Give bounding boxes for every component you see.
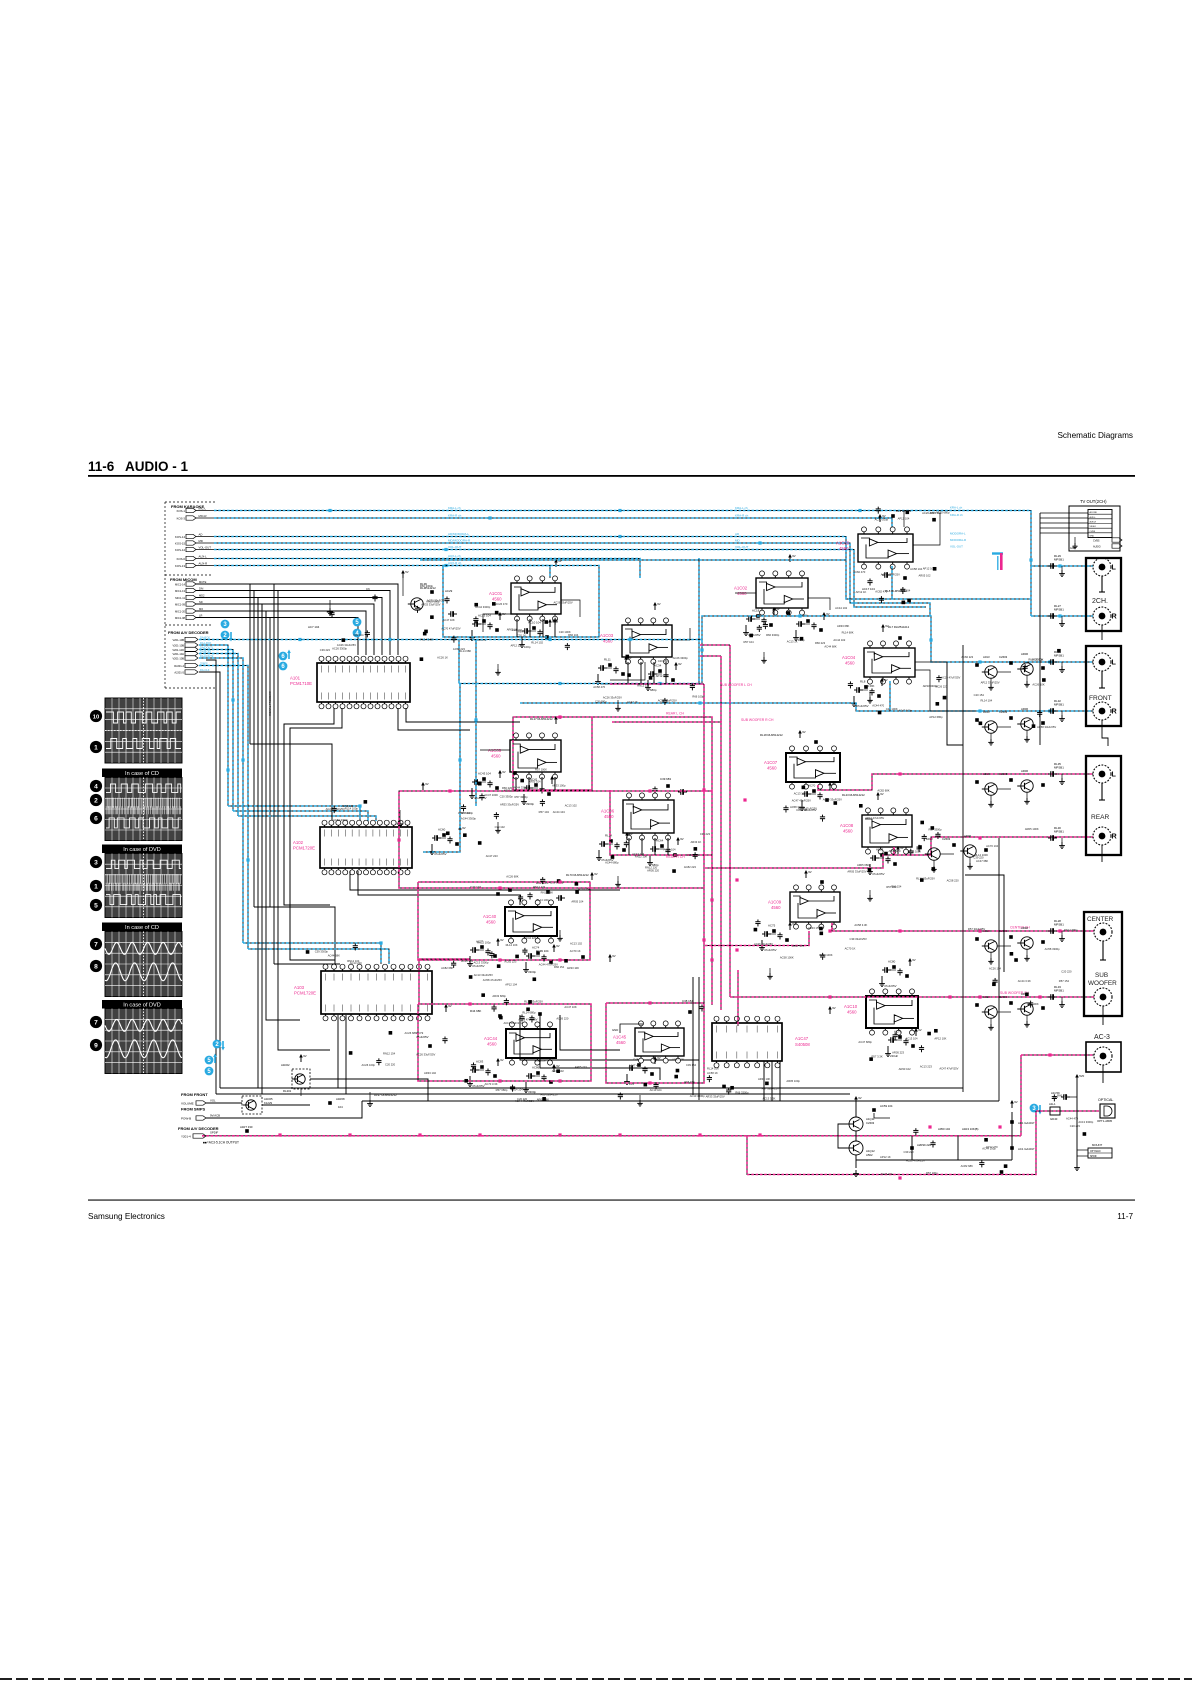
- svg-text:AC13 3300p: AC13 3300p: [1078, 1120, 1093, 1124]
- svg-text:RL14: RL14: [605, 834, 612, 838]
- svg-text:C6: C6: [366, 587, 370, 591]
- callout 8: [90, 960, 102, 972]
- svg-text:AC44 102: AC44 102: [833, 638, 845, 642]
- svg-text:A1C01: A1C01: [489, 591, 503, 596]
- callout 2: [90, 794, 102, 806]
- wire MD (cyan): [214, 543, 930, 616]
- svg-text:RN12 223: RN12 223: [637, 684, 650, 688]
- svg-text:MIC1-14: MIC1-14: [175, 582, 186, 586]
- svg-text:AC74: AC74: [532, 946, 540, 950]
- cyan drop A1C35 bottom pin to 2CH R path: [891, 566, 893, 599]
- svg-text:SUB WOOFER L CH: SUB WOOFER L CH: [720, 683, 752, 687]
- branch feed line into A102: [250, 744, 332, 821]
- svg-text:RL14 68K: RL14 68K: [459, 649, 471, 653]
- svg-text:SIGNAL PROCESS: SIGNAL PROCESS: [268, 691, 272, 716]
- svg-text:AC44 3300p: AC44 3300p: [461, 817, 476, 821]
- svg-text:A1C10: A1C10: [844, 1004, 858, 1009]
- svg-text:AC13 33uF/25V: AC13 33uF/25V: [503, 1021, 522, 1025]
- svg-text:C2603: C2603: [999, 995, 1008, 999]
- svg-text:AR33 33uF/25V: AR33 33uF/25V: [706, 1094, 725, 1098]
- svg-text:In case of CD: In case of CD: [125, 771, 159, 777]
- svg-text:R66 33uF/25V: R66 33uF/25V: [540, 1092, 558, 1096]
- magenta net: OPTICAL feed: [1036, 1110, 1099, 1112]
- wire AUX-L (cyan): [214, 559, 640, 579]
- power 9V above A1C02: [789, 557, 791, 562]
- svg-text:Samsung Electronics: Samsung Electronics: [88, 1212, 165, 1221]
- svg-text:A1R7 330: A1R7 330: [240, 1125, 253, 1129]
- svg-text:AC58 220: AC58 220: [341, 804, 353, 808]
- svg-text:AP12 47uF/25V: AP12 47uF/25V: [865, 816, 884, 820]
- svg-text:AC13 3300p: AC13 3300p: [548, 880, 563, 884]
- svg-text:KOS-3: KOS-3: [177, 516, 186, 520]
- A1C03 output pin drops to cyan line: [627, 662, 629, 684]
- svg-text:L: L: [1112, 770, 1117, 779]
- svg-text:9V: 9V: [832, 782, 836, 786]
- svg-text:AR05 223: AR05 223: [575, 1065, 587, 1069]
- svg-text:C48: C48: [633, 1058, 639, 1062]
- op-amp A1C10 4560 (bold): [866, 996, 918, 1028]
- svg-text:AC29: AC29: [445, 589, 453, 593]
- svg-text:9V: 9V: [556, 944, 560, 948]
- svg-text:AC47 10K: AC47 10K: [672, 1057, 684, 1061]
- callout 7a: [90, 938, 102, 950]
- svg-text:AUX-R: AUX-R: [199, 562, 208, 566]
- svg-text:AP12 33uF/25V: AP12 33uF/25V: [981, 680, 1000, 684]
- DAC A102 PCM1720E: [320, 827, 412, 868]
- A1C01 output pin drops to cyan box: [516, 619, 518, 637]
- svg-text:C20 104: C20 104: [353, 633, 364, 637]
- branch feed line into A103: [254, 907, 335, 964]
- svg-text:C2603: C2603: [999, 929, 1008, 933]
- jack CENTER: [1094, 923, 1112, 941]
- svg-text:KRA-R ch: KRA-R ch: [735, 513, 749, 517]
- svg-text:AJ201-5: AJ201-5: [174, 670, 184, 674]
- svg-text:A102: A102: [293, 840, 304, 845]
- svg-text:CENTER: CENTER: [1087, 916, 1114, 923]
- svg-text:C39 220: C39 220: [973, 856, 984, 860]
- 5V supply near optical: [1076, 1077, 1078, 1082]
- svg-text:R66 3300p: R66 3300p: [766, 633, 780, 637]
- svg-text:680p: 680p: [650, 688, 657, 692]
- svg-text:VOL-OUT: VOL-OUT: [735, 545, 749, 549]
- svg-text:AP12 104: AP12 104: [505, 982, 517, 986]
- spare black bus to bottom: [206, 660, 216, 1094]
- wire AD (cyan): [214, 537, 1031, 600]
- svg-text:9V: 9V: [884, 678, 888, 682]
- svg-text:9V: 9V: [802, 730, 806, 734]
- svg-text:SUB WOOFER R CH: SUB WOOFER R CH: [741, 718, 774, 722]
- svg-text:FROM A/V DECODER: FROM A/V DECODER: [168, 630, 209, 635]
- oscillogram table T2 (CD data): [105, 778, 182, 841]
- svg-text:9V: 9V: [502, 770, 506, 774]
- svg-text:GD40: GD40: [1050, 1117, 1058, 1121]
- svg-text:AC26 154: AC26 154: [461, 959, 473, 963]
- passives below A1C10: [888, 1039, 891, 1041]
- svg-text:RJ201-4: RJ201-4: [174, 664, 184, 668]
- oscillogram table T5 (DVD analog sine): [105, 1009, 182, 1074]
- svg-text:R57 154: R57 154: [1059, 979, 1070, 983]
- svg-text:A1C44: A1C44: [484, 1036, 498, 1041]
- svg-text:AC47 47uF/25V: AC47 47uF/25V: [939, 1067, 958, 1071]
- svg-text:VIDEO: VIDEO: [1090, 526, 1097, 528]
- svg-text:9V: 9V: [425, 782, 429, 786]
- svg-text:CVBS: CVBS: [1090, 531, 1096, 533]
- wire MIC-L (cyan) to A1C35 and 2CH: [214, 511, 1031, 617]
- op-amp A1C03 4560: [622, 625, 672, 657]
- svg-text:AC47 10K: AC47 10K: [442, 618, 454, 622]
- callout 4: [90, 780, 102, 792]
- svg-text:C20 154: C20 154: [974, 693, 985, 697]
- svg-text:RL14 33uF/25V: RL14 33uF/25V: [524, 999, 543, 1003]
- svg-text:KOS-14: KOS-14: [175, 535, 185, 539]
- svg-text:AC13 33uF/25V: AC13 33uF/25V: [474, 973, 493, 977]
- svg-text:SUB: SUB: [1095, 972, 1108, 979]
- svg-text:AC44 68K: AC44 68K: [328, 953, 340, 957]
- svg-text:A013: A013: [983, 710, 990, 714]
- svg-text:AC47 680p: AC47 680p: [858, 1040, 872, 1044]
- driver transistors Q11/Q12 (bottom): [849, 1117, 863, 1131]
- svg-text:AC43 104: AC43 104: [478, 772, 491, 776]
- svg-text:PCM1720E: PCM1720E: [293, 846, 315, 851]
- svg-text:9V: 9V: [858, 1096, 862, 1100]
- svg-text:AC70 1K: AC70 1K: [845, 946, 856, 950]
- svg-text:KRA-L ch: KRA-L ch: [735, 506, 748, 510]
- callout 10: [90, 710, 102, 722]
- svg-text:AC13 1K: AC13 1K: [787, 640, 798, 644]
- svg-text:R66 154: R66 154: [554, 965, 565, 969]
- svg-text:AC64: AC64: [656, 839, 664, 843]
- connector box AC-3: [1086, 1042, 1121, 1072]
- cyan junction dots top bus: [328, 509, 331, 512]
- passives above A1C45: [688, 1010, 692, 1014]
- svg-text:AR05 33uF/25V: AR05 33uF/25V: [847, 870, 866, 874]
- wire DA-CLK (black) down-bus: [199, 672, 220, 1088]
- svg-text:R57 680p: R57 680p: [496, 1088, 508, 1092]
- svg-text:AC13 3300p: AC13 3300p: [473, 961, 488, 965]
- cyan vertical pair right of A101: [423, 684, 460, 852]
- svg-text:R57 3300p: R57 3300p: [515, 795, 529, 799]
- jack REAR R: [1093, 827, 1111, 845]
- colored index mark (7-shape): [992, 552, 1003, 554]
- svg-text:4560: 4560: [843, 829, 853, 834]
- magenta net: vertical bus x712: [711, 791, 713, 1005]
- svg-text:9: 9: [94, 1042, 98, 1049]
- svg-text:KRA-L ch: KRA-L ch: [950, 506, 963, 510]
- svg-text:7: 7: [94, 941, 98, 948]
- wire DA(DOUT) (cyan) down-bus: [199, 650, 233, 812]
- svg-text:A013: A013: [983, 655, 990, 659]
- cyan callout 4: [353, 629, 362, 638]
- svg-text:MIC1-08: MIC1-08: [175, 616, 186, 620]
- svg-text:AC47 100p: AC47 100p: [898, 709, 912, 713]
- svg-text:9V: 9V: [462, 826, 466, 830]
- magenta net: REAR L to jack: [818, 774, 1093, 790]
- A1C35 out wires: [913, 513, 940, 545]
- svg-text:AC58 47uF/25V: AC58 47uF/25V: [518, 1018, 537, 1022]
- svg-text:AP12 104: AP12 104: [898, 517, 910, 521]
- svg-text:RN12 154: RN12 154: [383, 1051, 396, 1055]
- svg-text:AC47 470: AC47 470: [629, 1064, 641, 1068]
- passives below A1C05: [472, 781, 475, 783]
- svg-text:AC13 154: AC13 154: [578, 887, 590, 891]
- passives below A1C06: [599, 843, 602, 845]
- svg-text:RN12 220: RN12 220: [645, 865, 658, 869]
- svg-text:AP12 10K: AP12 10K: [934, 1036, 946, 1040]
- svg-text:AP12 220: AP12 220: [510, 643, 522, 647]
- svg-text:C2603: C2603: [999, 772, 1008, 776]
- magenta box around A1C44: [418, 1004, 591, 1081]
- footer rule: [88, 1200, 1135, 1201]
- op-amp A1C40 4560 (bold): [505, 907, 557, 936]
- more magenta junction dots: [448, 789, 451, 792]
- svg-text:9V: 9V: [678, 662, 682, 666]
- magenta link A1C03 to subwoofer bus: [700, 644, 730, 646]
- svg-text:A1C04: A1C04: [842, 655, 856, 660]
- svg-text:AC26 470: AC26 470: [495, 602, 507, 606]
- left bus extra verticals: [273, 584, 275, 964]
- passives above A1C09: [805, 873, 807, 878]
- svg-text:V201-10A: V201-10A: [172, 652, 184, 656]
- svg-text:C39 102: C39 102: [495, 825, 506, 829]
- svg-text:FROM MICOM: FROM MICOM: [170, 577, 197, 582]
- svg-text:R66 223: R66 223: [815, 641, 826, 645]
- ground stubs row: [497, 664, 499, 669]
- svg-text:AUX-L: AUX-L: [199, 555, 208, 559]
- svg-text:RL8: RL8: [860, 680, 866, 684]
- svg-text:47uF/25V: 47uF/25V: [856, 704, 869, 708]
- svg-text:C20 223: C20 223: [1070, 1124, 1081, 1128]
- A1C06 output pin drops to REAR R line: [628, 838, 630, 855]
- svg-text:C2603: C2603: [942, 837, 951, 841]
- svg-text:GND: GND: [1090, 535, 1095, 537]
- passives below A1C45: [627, 1067, 630, 1069]
- svg-text:GND: GND: [612, 1028, 618, 1032]
- svg-text:FROM FRONT: FROM FRONT: [181, 1092, 208, 1097]
- svg-text:KOS-1: KOS-1: [177, 509, 186, 513]
- connector box 2CH: [1086, 558, 1121, 631]
- OPTICAL transmitter: [1100, 1104, 1115, 1118]
- transistor box upper (dashed): [292, 1069, 310, 1089]
- svg-text:VOL-OUT: VOL-OUT: [950, 545, 963, 549]
- svg-text:KOS-6: KOS-6: [177, 557, 186, 561]
- svg-text:A562: A562: [866, 1153, 873, 1157]
- resistor on VOL line: [328, 1101, 332, 1105]
- callout 5: [90, 899, 102, 911]
- svg-text:MIC-L: MIC-L: [199, 507, 207, 511]
- svg-text:REAR L CH: REAR L CH: [666, 712, 685, 716]
- passives above A103: [581, 955, 585, 959]
- svg-text:R44 68K: R44 68K: [470, 1009, 481, 1013]
- oscillogram table T3 (DVD data): [105, 854, 182, 918]
- svg-text:A013: A013: [926, 837, 933, 841]
- svg-text:R57 100p: R57 100p: [926, 1171, 938, 1175]
- passives below A1C01: [472, 623, 475, 625]
- svg-text:MIC-R: MIC-R: [199, 514, 207, 518]
- cyan box around A1C03 group right edge: [698, 558, 700, 684]
- power 9V above A1C01: [555, 562, 557, 567]
- wire AUX-R (cyan): [214, 566, 550, 579]
- svg-text:V201-10B: V201-10B: [172, 656, 184, 660]
- buffer transistors Q CENTER: [985, 940, 997, 952]
- svg-text:47uF/25V: 47uF/25V: [434, 852, 447, 856]
- bar: In case of CD (1): [102, 769, 182, 778]
- svg-text:AC58 3300p: AC58 3300p: [1045, 947, 1060, 951]
- black bus vertical right: [962, 645, 964, 1092]
- svg-text:4560: 4560: [847, 1010, 857, 1015]
- svg-text:AR06: AR06: [1021, 926, 1028, 930]
- svg-text:MODORA-R: MODORA-R: [950, 538, 966, 542]
- cyan callout 6 bottom up: [205, 1056, 214, 1065]
- svg-text:AC44 3.3K: AC44 3.3K: [1018, 979, 1031, 983]
- svg-text:AC58 470: AC58 470: [593, 685, 605, 689]
- svg-text:AC82 68K: AC82 68K: [441, 966, 453, 970]
- svg-text:AR06: AR06: [1021, 769, 1028, 773]
- svg-text:AR05 1K: AR05 1K: [507, 627, 518, 631]
- svg-text:OPTICAL: OPTICAL: [1098, 1098, 1113, 1102]
- svg-text:AC59 104: AC59 104: [880, 1104, 893, 1108]
- magenta net: REAR R ch box: [610, 790, 712, 855]
- A1C05 feed wires: [480, 749, 510, 751]
- wire DA-LRCK (cyan) down-bus: [199, 645, 228, 806]
- svg-text:RN12 104: RN12 104: [347, 959, 360, 963]
- svg-text:47uF/25V: 47uF/25V: [764, 948, 777, 952]
- svg-text:47uF/25V: 47uF/25V: [472, 1084, 485, 1088]
- callout 1b: [90, 880, 102, 892]
- svg-text:MIC1-20: MIC1-20: [175, 609, 186, 613]
- svg-text:In case of CD: In case of CD: [125, 925, 159, 931]
- passives above A1C04: [882, 627, 884, 632]
- svg-text:MODORA-L: MODORA-L: [950, 532, 966, 536]
- svg-text:AC26 3300p: AC26 3300p: [673, 656, 688, 660]
- svg-text:AC70 104: AC70 104: [986, 844, 998, 848]
- cyan callout 2 down: [221, 631, 230, 640]
- connector box FRONT: [1086, 646, 1121, 726]
- svg-text:AR33 102: AR33 102: [424, 1071, 436, 1075]
- svg-text:AC1 GA4017: AC1 GA4017: [1018, 1121, 1035, 1125]
- svg-text:RL14 10K: RL14 10K: [506, 943, 518, 947]
- svg-text:AC13 102: AC13 102: [565, 803, 577, 807]
- svg-text:AR05 100p: AR05 100p: [786, 1079, 800, 1083]
- svg-text:AR05 680p: AR05 680p: [857, 863, 871, 867]
- cyan callout 3 right: [1030, 1104, 1039, 1113]
- svg-text:47uF/25V: 47uF/25V: [872, 872, 885, 876]
- magenta net: bottom 5.1ch output long line: [202, 1135, 1021, 1137]
- svg-text:R66 220: R66 220: [502, 786, 513, 790]
- wires A103 bottom to bottom bus: [337, 1015, 339, 1088]
- svg-text:AC26 33uF/25V: AC26 33uF/25V: [416, 1052, 435, 1056]
- connector box REAR: [1086, 756, 1121, 855]
- magenta net: second bottom line to optical: [747, 1111, 1036, 1175]
- left bus feed into A103: [274, 963, 340, 965]
- op-amp A1C35 4560 (2CH out): [858, 534, 913, 562]
- svg-text:C20 220: C20 220: [1061, 970, 1072, 974]
- svg-text:AR05 220: AR05 220: [647, 869, 659, 873]
- svg-text:R57 100K: R57 100K: [535, 767, 547, 771]
- cyan junction dots mid routes: [558, 682, 561, 685]
- header rule: [88, 475, 1135, 477]
- svg-text:AR05 104: AR05 104: [571, 900, 583, 904]
- DAC A101 PCM1710E: [317, 663, 410, 702]
- svg-text:47uF/25V: 47uF/25V: [884, 984, 897, 988]
- svg-text:RN12 100p: RN12 100p: [477, 940, 491, 944]
- passives below A1C02: [746, 618, 749, 620]
- svg-text:9V: 9V: [303, 1054, 307, 1058]
- svg-text:C20 3300p: C20 3300p: [500, 794, 514, 798]
- svg-text:AR05 104: AR05 104: [529, 780, 541, 784]
- svg-text:RL23 RLM514212: RL23 RLM514212: [842, 793, 865, 797]
- cyan callout 5: [353, 618, 362, 627]
- svg-text:9V: 9V: [880, 792, 884, 796]
- svg-text:KOS-15: KOS-15: [175, 541, 185, 545]
- svg-text:4560: 4560: [839, 546, 849, 551]
- svg-text:RL14 102: RL14 102: [531, 641, 543, 645]
- svg-text:C20 100K: C20 100K: [886, 707, 898, 711]
- passives below A1C35: [869, 579, 871, 581]
- svg-text:AC26 100p: AC26 100p: [362, 1063, 376, 1067]
- magenta box around A1C40: [418, 882, 590, 960]
- svg-text:AC26 154: AC26 154: [989, 967, 1001, 971]
- passives above A1C40: [496, 892, 500, 896]
- svg-text:3300p: 3300p: [528, 1090, 536, 1094]
- svg-text:4560: 4560: [604, 814, 614, 819]
- svg-text:SPDIF: SPDIF: [1090, 1156, 1097, 1158]
- svg-text:MPSB1: MPSB1: [1054, 654, 1064, 658]
- jack 2CH L: [1093, 558, 1111, 576]
- svg-text:5: 5: [94, 902, 98, 909]
- svg-text:AR33 10K: AR33 10K: [567, 966, 579, 970]
- svg-text:AC13 102: AC13 102: [570, 941, 582, 945]
- svg-text:8: 8: [94, 963, 98, 970]
- passives below A1C08: [870, 857, 873, 859]
- passives above A1C10: [882, 969, 885, 971]
- op-amp A1C02 4560: [756, 578, 808, 608]
- magenta junction dots: [558, 715, 561, 718]
- passives right of A102: [422, 785, 424, 790]
- svg-text:2CH.: 2CH.: [1092, 598, 1108, 605]
- svg-text:4560: 4560: [486, 920, 496, 925]
- svg-text:GND: GND: [1070, 547, 1076, 550]
- svg-text:RN12 680p: RN12 680p: [1064, 928, 1078, 932]
- magenta net: CENTER ch to jack: [832, 923, 1094, 931]
- svg-text:REAR: REAR: [1091, 814, 1110, 821]
- svg-text:AR33 1K: AR33 1K: [691, 840, 702, 844]
- svg-text:AC47 10K: AC47 10K: [564, 1005, 576, 1009]
- oscillogram table T4 (CD analog sine): [105, 932, 182, 997]
- svg-text:1: 1: [94, 744, 98, 751]
- svg-text:OPT-MAN: OPT-MAN: [1090, 1150, 1101, 1153]
- resistor on SPDIF line: [245, 1129, 249, 1133]
- svg-text:AC47 1K: AC47 1K: [627, 700, 638, 704]
- cyan bundle into A103 pins: [243, 943, 381, 964]
- passives above A1C08: [877, 795, 879, 800]
- svg-text:AC82 470: AC82 470: [875, 589, 887, 593]
- transistor box A1D01: [242, 1096, 262, 1114]
- cyan callout 3: [221, 620, 230, 629]
- cyan net: 2CH L feed: [1031, 565, 1093, 567]
- svg-text:AC83: AC83: [476, 1060, 484, 1064]
- svg-text:AR06: AR06: [1021, 652, 1028, 656]
- svg-text:MPSB1: MPSB1: [1054, 989, 1064, 993]
- op-amp A1C09 4560: [790, 892, 840, 922]
- svg-text:C39 223: C39 223: [700, 832, 711, 836]
- svg-text:C39 3.3K: C39 3.3K: [796, 808, 807, 812]
- svg-text:KRA-R ch: KRA-R ch: [448, 513, 462, 517]
- svg-text:AC86: AC86: [532, 1066, 540, 1070]
- svg-text:A1C09: A1C09: [768, 899, 782, 904]
- cyan box around A1C01 group: [443, 566, 599, 638]
- cyan callout 2 bottom: [213, 1040, 222, 1049]
- svg-text:A1C05: A1C05: [488, 748, 502, 753]
